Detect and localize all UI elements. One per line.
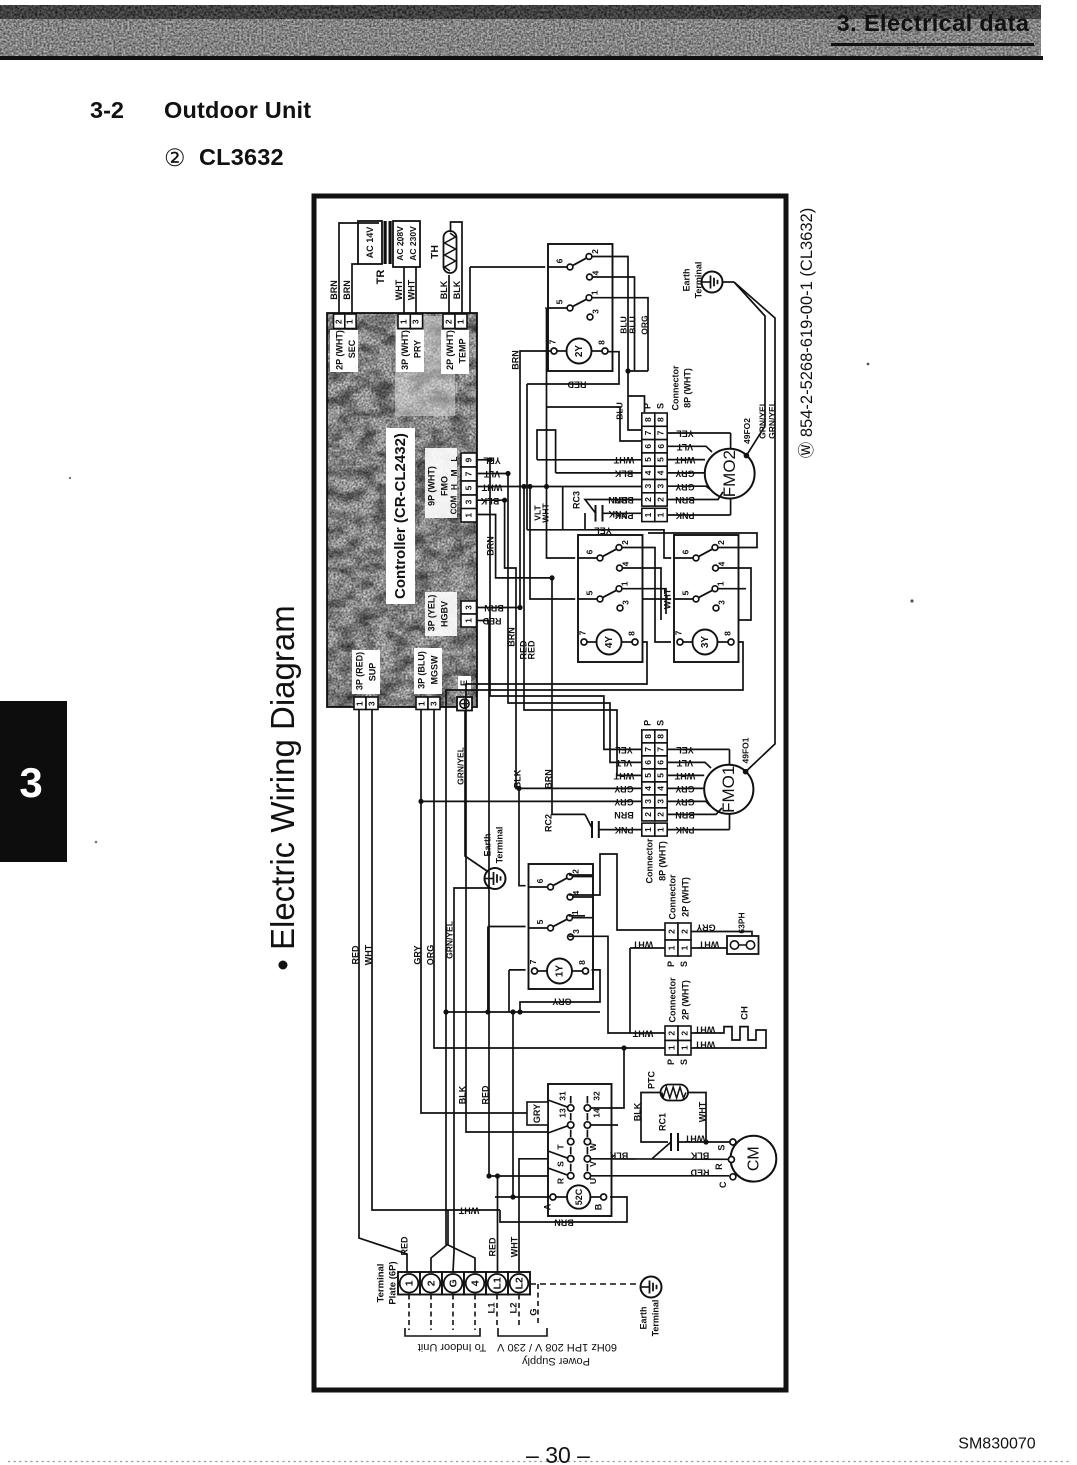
svg-text:3: 3 (656, 484, 666, 489)
svg-text:1: 1 (345, 319, 355, 324)
svg-text:9P (WHT): 9P (WHT) (426, 466, 436, 506)
svg-text:BRN: BRN (543, 769, 553, 789)
svg-text:Terminal: Terminal (494, 827, 504, 864)
svg-text:BLK: BLK (632, 1102, 642, 1121)
svg-text:5: 5 (584, 590, 594, 595)
svg-text:1: 1 (666, 945, 676, 950)
svg-text:Terminal: Terminal (376, 1264, 387, 1303)
svg-text:3: 3 (366, 701, 376, 706)
svg-text:S: S (655, 720, 665, 726)
svg-text:WHT: WHT (406, 279, 416, 300)
svg-text:②: ② (164, 145, 186, 172)
svg-text:7: 7 (464, 471, 474, 476)
svg-text:WHT: WHT (662, 588, 672, 609)
svg-text:3: 3 (464, 605, 474, 610)
svg-text:R: R (555, 1178, 565, 1184)
svg-text:Ⓦ 854-2-5268-619-00-1 (CL3632): Ⓦ 854-2-5268-619-00-1 (CL3632) (797, 208, 816, 458)
svg-text:L1: L1 (487, 1302, 498, 1314)
svg-text:60Hz 1PH 208 V / 230 V: 60Hz 1PH 208 V / 230 V (496, 1341, 617, 1353)
svg-text:5: 5 (554, 299, 564, 304)
svg-text:AC 14V: AC 14V (365, 227, 375, 259)
svg-text:ORG: ORG (425, 945, 435, 966)
svg-text:3: 3 (411, 319, 421, 324)
svg-text:5: 5 (643, 773, 653, 778)
svg-text:BLK: BLK (480, 496, 499, 506)
svg-text:31: 31 (557, 1091, 567, 1101)
svg-text:8: 8 (643, 417, 653, 422)
svg-text:V: V (588, 1161, 598, 1167)
svg-text:1Y: 1Y (555, 965, 566, 978)
svg-text:C: C (718, 1181, 728, 1188)
svg-text:YEL: YEL (676, 429, 694, 439)
svg-text:S: S (679, 1059, 689, 1065)
svg-text:4: 4 (620, 561, 630, 566)
svg-text:WHT: WHT (694, 1040, 715, 1050)
svg-text:RED: RED (690, 1168, 710, 1178)
svg-text:WHT: WHT (694, 1025, 715, 1035)
svg-text:WHT: WHT (632, 1029, 653, 1039)
svg-text:3: 3 (571, 929, 581, 934)
svg-text:2Y: 2Y (574, 345, 585, 358)
svg-text:BRN: BRN (675, 495, 695, 505)
svg-text:WHT: WHT (394, 279, 404, 300)
svg-text:RC3: RC3 (571, 491, 581, 509)
svg-text:H: H (449, 484, 459, 490)
svg-text:L: L (449, 456, 459, 461)
svg-text:– 30 –: – 30 – (526, 1442, 590, 1465)
svg-text:L1: L1 (491, 1277, 503, 1289)
svg-text:2P (WHT): 2P (WHT) (445, 330, 455, 370)
svg-text:1: 1 (643, 512, 653, 517)
svg-text:WHT: WHT (458, 1206, 479, 1216)
svg-text:BRN: BRN (614, 810, 634, 820)
svg-text:GRY: GRY (675, 784, 694, 794)
svg-text:P: P (643, 720, 653, 726)
svg-text:49FO2: 49FO2 (742, 418, 752, 444)
svg-text:6: 6 (643, 444, 653, 449)
svg-text:3: 3 (643, 799, 653, 804)
svg-text:2P (WHT): 2P (WHT) (680, 877, 690, 917)
svg-text:8: 8 (596, 340, 606, 345)
svg-text:2: 2 (666, 929, 676, 934)
svg-text:8: 8 (626, 631, 636, 636)
svg-text:2: 2 (443, 319, 453, 324)
svg-text:TR: TR (375, 270, 387, 285)
svg-text:WHT: WHT (698, 940, 719, 950)
svg-text:1: 1 (570, 910, 580, 915)
svg-text:2: 2 (656, 497, 666, 502)
svg-text:YEL: YEL (676, 745, 694, 755)
svg-text:BLU: BLU (627, 316, 637, 333)
svg-text:5: 5 (464, 485, 474, 490)
svg-text:BRN: BRN (485, 536, 495, 556)
svg-text:9: 9 (464, 457, 474, 462)
svg-text:1: 1 (403, 1280, 415, 1286)
svg-text:BRN: BRN (329, 280, 339, 300)
svg-text:52C: 52C (574, 1188, 584, 1205)
svg-text:1: 1 (656, 512, 666, 517)
svg-text:1: 1 (398, 319, 408, 324)
svg-text:4: 4 (469, 1280, 481, 1286)
svg-text:PNK: PNK (675, 825, 695, 835)
svg-text:Connector: Connector (667, 977, 677, 1022)
svg-text:6: 6 (535, 878, 545, 883)
svg-text:7: 7 (643, 430, 653, 435)
svg-text:MGSW: MGSW (429, 655, 439, 685)
svg-text:8P (WHT): 8P (WHT) (657, 841, 667, 881)
svg-text:2: 2 (620, 540, 630, 545)
svg-text:SUP: SUP (367, 663, 377, 682)
svg-text:Connector: Connector (670, 365, 680, 410)
svg-text:TH: TH (429, 245, 441, 259)
svg-text:49FO1: 49FO1 (740, 737, 750, 763)
svg-text:PNK: PNK (608, 509, 628, 519)
svg-text:3: 3 (590, 309, 600, 314)
svg-text:YEL: YEL (594, 525, 612, 535)
svg-text:1: 1 (643, 827, 653, 832)
svg-text:4: 4 (643, 786, 653, 791)
svg-text:GRY: GRY (675, 482, 694, 492)
svg-text:2: 2 (425, 1280, 437, 1286)
svg-text:3P (WHT): 3P (WHT) (400, 330, 410, 370)
svg-text:3: 3 (19, 759, 42, 806)
svg-text:RED: RED (480, 1085, 490, 1105)
svg-text:GRY: GRY (696, 923, 715, 933)
svg-text:HGBV: HGBV (439, 601, 449, 627)
svg-text:7: 7 (673, 630, 683, 635)
svg-text:RED: RED (482, 616, 502, 626)
svg-text:1: 1 (656, 827, 666, 832)
svg-text:1: 1 (464, 513, 474, 518)
svg-text:BRN: BRN (554, 1218, 574, 1228)
svg-text:1: 1 (679, 945, 689, 950)
svg-text:3P (YEL): 3P (YEL) (426, 595, 436, 632)
svg-text:T: T (555, 1144, 565, 1150)
svg-text:BRN: BRN (675, 810, 695, 820)
svg-text:7: 7 (643, 747, 653, 752)
svg-text:To Indoor Unit: To Indoor Unit (418, 1341, 486, 1353)
svg-text:2: 2 (643, 812, 653, 817)
svg-text:AC 230V: AC 230V (408, 226, 418, 261)
svg-text:1: 1 (620, 581, 630, 586)
svg-text:32: 32 (591, 1091, 601, 1101)
svg-text:5: 5 (535, 919, 545, 924)
svg-text:GRN/YEL: GRN/YEL (767, 401, 777, 439)
svg-text:7: 7 (656, 430, 666, 435)
svg-text:BLK: BLK (690, 1151, 709, 1161)
svg-text:VLT: VLT (676, 442, 693, 452)
svg-text:WHT: WHT (540, 503, 550, 523)
svg-text:8: 8 (656, 417, 666, 422)
svg-text:RC2: RC2 (543, 814, 553, 832)
svg-text:SM830070: SM830070 (958, 1436, 1035, 1453)
svg-text:P: P (666, 1059, 676, 1065)
svg-text:GRY: GRY (675, 469, 694, 479)
svg-text:RED: RED (350, 945, 360, 965)
svg-text:E: E (459, 680, 469, 686)
svg-text:2P (WHT): 2P (WHT) (334, 330, 344, 370)
svg-text:S: S (655, 403, 665, 409)
svg-text:6: 6 (554, 258, 564, 263)
svg-text:2: 2 (656, 812, 666, 817)
svg-text:7: 7 (656, 747, 666, 752)
svg-text:4: 4 (643, 470, 653, 475)
svg-text:S: S (716, 1145, 726, 1151)
svg-text:2: 2 (679, 929, 689, 934)
svg-text:3: 3 (620, 600, 630, 605)
svg-text:8P (WHT): 8P (WHT) (682, 368, 692, 408)
svg-text:1: 1 (416, 701, 426, 706)
svg-text:Earth: Earth (482, 833, 492, 856)
svg-text:7: 7 (547, 339, 557, 344)
svg-text:Terminal: Terminal (650, 1300, 660, 1337)
svg-text:2P (WHT): 2P (WHT) (680, 980, 690, 1020)
svg-text:BRN: BRN (608, 495, 628, 505)
svg-text:Controller (CR-CL2432): Controller (CR-CL2432) (392, 433, 409, 599)
svg-text:CH: CH (740, 1006, 751, 1020)
svg-text:YEL: YEL (483, 455, 501, 465)
svg-text:BLK: BLK (439, 280, 449, 299)
svg-text:1: 1 (354, 701, 364, 706)
svg-text:4: 4 (656, 786, 666, 791)
svg-text:8: 8 (722, 631, 732, 636)
svg-text:WHT: WHT (632, 940, 653, 950)
svg-text:WHT: WHT (481, 482, 502, 492)
svg-text:Outdoor Unit: Outdoor Unit (164, 97, 311, 123)
svg-text:Earth: Earth (681, 268, 691, 291)
svg-text:8: 8 (577, 960, 587, 965)
svg-text:63PH: 63PH (736, 912, 746, 933)
svg-text:3P (BLU): 3P (BLU) (416, 651, 426, 689)
svg-text:7: 7 (528, 959, 538, 964)
svg-text:G: G (529, 1308, 540, 1315)
svg-text:8: 8 (656, 734, 666, 739)
svg-text:BLK: BLK (457, 1085, 467, 1104)
svg-text:G: G (447, 1279, 459, 1287)
svg-text:VLT: VLT (483, 469, 500, 479)
svg-text:BLK: BLK (512, 769, 522, 788)
svg-text:GRN/YEL: GRN/YEL (455, 747, 465, 785)
svg-text:SEC: SEC (347, 339, 357, 358)
svg-text:1: 1 (666, 1045, 676, 1050)
svg-text:RED: RED (487, 1237, 497, 1257)
svg-text:AC 208V: AC 208V (395, 226, 405, 261)
svg-text:6: 6 (656, 444, 666, 449)
svg-text:CL3632: CL3632 (199, 144, 284, 170)
svg-text:RED: RED (526, 640, 536, 660)
svg-text:R: R (714, 1163, 724, 1170)
svg-text:WHT: WHT (697, 1101, 707, 1122)
svg-text:L2: L2 (509, 1302, 520, 1313)
svg-text:4: 4 (656, 470, 666, 475)
svg-text:Connector: Connector (667, 874, 677, 919)
svg-text:1: 1 (716, 581, 726, 586)
svg-text:3: 3 (428, 701, 438, 706)
svg-text:BLK: BLK (609, 1151, 628, 1161)
svg-text:RC1: RC1 (657, 1113, 667, 1131)
svg-text:BRN: BRN (510, 350, 520, 370)
svg-text:PTC: PTC (646, 1070, 656, 1089)
svg-text:S: S (555, 1161, 565, 1167)
svg-text:2: 2 (590, 249, 600, 254)
svg-text:3: 3 (716, 600, 726, 605)
svg-text:S: S (679, 961, 689, 967)
svg-text:U: U (588, 1178, 598, 1184)
svg-text:GRY: GRY (532, 1104, 542, 1123)
svg-text:3: 3 (656, 799, 666, 804)
svg-text:W: W (588, 1142, 598, 1151)
svg-text:CM: CM (745, 1146, 762, 1171)
svg-text:5: 5 (656, 773, 666, 778)
svg-text:4Y: 4Y (604, 636, 615, 649)
svg-text:GRY: GRY (552, 997, 571, 1007)
svg-text:B: B (593, 1203, 603, 1210)
svg-text:Connector: Connector (644, 838, 654, 883)
svg-text:Power Supply: Power Supply (522, 1355, 590, 1367)
svg-text:3P (RED): 3P (RED) (354, 652, 364, 690)
svg-text:1: 1 (590, 290, 600, 295)
svg-text:1: 1 (679, 1045, 689, 1050)
svg-text:Plate (6P): Plate (6P) (388, 1261, 399, 1304)
svg-text:2: 2 (333, 319, 343, 324)
svg-text:• Electric Wiring Diagram: • Electric Wiring Diagram (264, 605, 301, 970)
svg-text:BLK: BLK (452, 280, 462, 299)
svg-text:4: 4 (716, 561, 726, 566)
svg-text:3: 3 (464, 499, 474, 504)
svg-text:FMO1: FMO1 (719, 766, 738, 813)
svg-text:2: 2 (716, 540, 726, 545)
svg-text:6: 6 (680, 549, 690, 554)
svg-text:ORG: ORG (639, 315, 649, 335)
svg-text:BRN: BRN (484, 603, 504, 613)
svg-text:3: 3 (643, 484, 653, 489)
svg-text:3. Electrical data: 3. Electrical data (837, 10, 1030, 36)
svg-text:2: 2 (666, 1031, 676, 1036)
svg-text:13: 13 (557, 1108, 567, 1118)
svg-text:WHT: WHT (684, 1134, 705, 1144)
svg-text:FMO2: FMO2 (720, 450, 739, 497)
svg-text:14: 14 (591, 1108, 601, 1118)
svg-text:WHT: WHT (509, 1236, 519, 1257)
svg-text:7: 7 (577, 630, 587, 635)
svg-text:5: 5 (680, 590, 690, 595)
svg-text:GRY: GRY (675, 797, 694, 807)
svg-text:RED: RED (399, 1236, 409, 1256)
svg-text:6: 6 (584, 549, 594, 554)
svg-text:RED: RED (567, 380, 587, 390)
svg-text:2: 2 (679, 1031, 689, 1036)
svg-text:WHT: WHT (674, 771, 695, 781)
svg-text:6: 6 (656, 760, 666, 765)
svg-text:5: 5 (656, 457, 666, 462)
svg-text:A: A (542, 1203, 552, 1210)
svg-text:GRN/YEL: GRN/YEL (757, 401, 767, 439)
svg-text:Terminal: Terminal (693, 262, 703, 299)
svg-text:WHT: WHT (363, 944, 373, 965)
svg-text:2: 2 (643, 497, 653, 502)
svg-text:1: 1 (455, 319, 465, 324)
svg-text:GRY: GRY (412, 945, 422, 964)
svg-text:VLT: VLT (676, 758, 693, 768)
svg-text:TEMP: TEMP (457, 338, 467, 363)
svg-text:8: 8 (643, 734, 653, 739)
svg-text:6: 6 (643, 760, 653, 765)
svg-text:M: M (449, 469, 459, 476)
svg-text:WHT: WHT (674, 455, 695, 465)
svg-text:3-2: 3-2 (90, 97, 124, 123)
svg-text:2: 2 (570, 869, 580, 874)
svg-text:L2: L2 (513, 1277, 525, 1289)
svg-text:1: 1 (464, 618, 474, 623)
svg-text:PNK: PNK (675, 511, 695, 521)
svg-text:BRN: BRN (342, 280, 352, 300)
svg-text:5: 5 (643, 457, 653, 462)
svg-text:3Y: 3Y (700, 636, 711, 649)
svg-text:PRY: PRY (412, 340, 422, 358)
svg-text:P: P (666, 961, 676, 967)
svg-text:4: 4 (590, 270, 600, 275)
svg-text:COM: COM (450, 495, 459, 514)
svg-text:Earth: Earth (638, 1306, 648, 1329)
